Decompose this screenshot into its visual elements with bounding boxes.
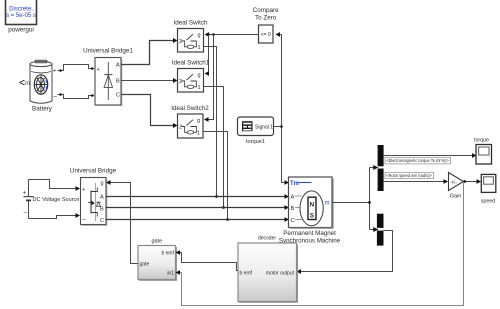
battery port m (unconnected) <box>20 80 31 87</box>
svg-text:Tm: Tm <box>290 181 299 187</box>
wire phase A bridge2 to PMSM <box>106 194 289 199</box>
powergui U_PG <box>6 0 37 34</box>
svg-text:To Zero: To Zero <box>255 14 277 21</box>
svg-text:2: 2 <box>179 39 182 45</box>
wire switch1 out to phase B <box>204 87 225 209</box>
svg-text:g: g <box>198 73 201 79</box>
wire gate branch to switch1 g <box>205 35 210 76</box>
svg-text:+: + <box>82 187 85 193</box>
bus selector 2 <box>377 214 384 246</box>
svg-text:+: + <box>53 69 57 75</box>
svg-text:motor output: motor output <box>266 271 295 277</box>
svg-text:C: C <box>116 92 120 98</box>
svg-text:g: g <box>101 181 104 187</box>
svg-text:b emf: b emf <box>161 250 174 256</box>
wire bridge1 C to ideal switch2 in <box>121 95 178 129</box>
svg-text:Compare: Compare <box>253 7 279 14</box>
svg-text:m: m <box>25 81 30 87</box>
svg-text:A: A <box>116 63 120 69</box>
svg-text:B: B <box>291 206 295 212</box>
svg-text:C: C <box>100 218 104 224</box>
svg-text:Ideal Switch2: Ideal Switch2 <box>171 105 209 112</box>
svg-text:_: _ <box>82 215 87 221</box>
wire speed feedback to gate in1 <box>176 182 464 306</box>
wire DC+ to bridge2 + <box>29 180 81 191</box>
gate subsystem <box>138 239 176 281</box>
universal bridge (IGBT inverter) <box>70 168 117 226</box>
svg-text:<Electromagnetic torque Te (N*: <Electromagnetic torque Te (N*m)> <box>386 158 449 163</box>
svg-text:A: A <box>291 194 295 200</box>
wire DC- to bridge2 - <box>29 213 81 218</box>
wire bus1 speed out to gain <box>384 179 448 184</box>
torque scope SC1 <box>474 137 492 164</box>
svg-text:1: 1 <box>198 85 201 91</box>
svg-text:1: 1 <box>197 131 200 137</box>
svg-text:in1: in1 <box>167 270 174 276</box>
svg-text:<Rotor speed wm (rad/s)>: <Rotor speed wm (rad/s)> <box>386 173 432 178</box>
ideal switch1 SW1 <box>172 60 210 93</box>
DC voltage source V1 <box>23 180 80 219</box>
svg-text:decoder: decoder <box>258 236 276 242</box>
wire phase B bridge2 to PMSM <box>106 205 289 210</box>
compare to zero CTZ <box>253 7 279 43</box>
svg-text:g: g <box>198 33 201 39</box>
svg-text:2: 2 <box>179 124 182 130</box>
svg-text:C: C <box>291 218 295 224</box>
svg-text:Gain: Gain <box>450 193 462 199</box>
wire bridge1 A to ideal switch in <box>121 38 178 65</box>
svg-text:<= 0: <= 0 <box>261 32 271 38</box>
speed scope SC2 <box>481 174 496 204</box>
ideal switch SW <box>174 20 208 53</box>
wire compare output to switch gates <box>205 32 259 37</box>
bridge2 IGBT icon Q1 <box>95 183 97 221</box>
svg-text:gate: gate <box>151 239 162 245</box>
wire phase C bridge2 to PMSM <box>106 217 289 222</box>
svg-text:1: 1 <box>198 45 201 51</box>
wire gate branch to switch2 g <box>204 35 214 122</box>
svg-text:Universal Bridge1: Universal Bridge1 <box>83 48 133 55</box>
wire switch2 out to phase C <box>203 132 229 221</box>
svg-text:A: A <box>100 194 104 200</box>
svg-text:+: + <box>23 191 27 197</box>
wire gain to speed scope and feedback junction <box>463 179 481 184</box>
svg-text:Ideal Switch: Ideal Switch <box>174 20 208 27</box>
bridge1 diode icon D1 <box>107 62 109 100</box>
wire signal1 to compare input and PMSM Tm <box>274 32 290 185</box>
wire battery+ to bridge1 + <box>58 65 95 72</box>
svg-text:Signal 1: Signal 1 <box>255 125 273 131</box>
svg-text:Ideal Switch1: Ideal Switch1 <box>172 60 210 67</box>
svg-text:g: g <box>197 118 200 124</box>
svg-text:-K-: -K- <box>451 179 458 185</box>
wire gate output to bridge2 g <box>106 180 138 263</box>
svg-text:DC Voltage Source: DC Voltage Source <box>33 197 80 203</box>
wire PMSM m output to bus selectors <box>332 165 379 232</box>
wire switch out to phase A <box>204 47 218 198</box>
svg-text:2: 2 <box>179 79 182 85</box>
svg-text:Universal Bridge: Universal Bridge <box>70 168 117 175</box>
svg-text:Discrete,: Discrete, <box>9 7 33 13</box>
svg-text:Battery: Battery <box>32 106 53 113</box>
gain K1 <box>449 173 464 200</box>
svg-text:S: S <box>310 213 315 220</box>
svg-text:powergui: powergui <box>8 27 34 34</box>
wire bus2 out to decoder motor output <box>297 231 393 274</box>
ideal switch2 SW2 <box>171 105 209 138</box>
decoder subsystem <box>238 236 297 303</box>
signal label rotor speed <box>385 172 434 178</box>
wire decoder b emf to gate b emf <box>176 250 239 270</box>
svg-text:N: N <box>310 202 315 209</box>
svg-text:torque: torque <box>474 137 489 143</box>
wire battery- to bridge1 - <box>58 93 95 98</box>
svg-text:Permanent Magnet: Permanent Magnet <box>283 230 336 237</box>
svg-text:b emf: b emf <box>240 271 253 277</box>
universal bridge1 (diode rectifier) <box>83 48 133 106</box>
wire bus1 torque out to torque scope <box>384 153 477 158</box>
signal builder torque1 <box>238 117 274 145</box>
svg-text:+: + <box>97 67 100 73</box>
svg-text:torque1: torque1 <box>246 139 265 145</box>
svg-text:gate: gate <box>140 262 150 268</box>
bus selector 1 <box>378 145 384 191</box>
signal label electromagnetic torque <box>385 157 451 164</box>
svg-text:s = 5e-05 s: s = 5e-05 s <box>6 13 36 19</box>
svg-text:speed: speed <box>481 198 495 204</box>
svg-text:_: _ <box>23 207 28 214</box>
svg-text:B: B <box>100 206 104 212</box>
PMSM machine M1 <box>279 177 341 245</box>
battery B1 <box>30 60 57 112</box>
svg-text:B: B <box>116 78 120 84</box>
svg-text:_: _ <box>52 90 57 97</box>
wire bridge1 B to ideal switch1 in <box>121 78 178 83</box>
svg-text:m: m <box>325 201 330 207</box>
